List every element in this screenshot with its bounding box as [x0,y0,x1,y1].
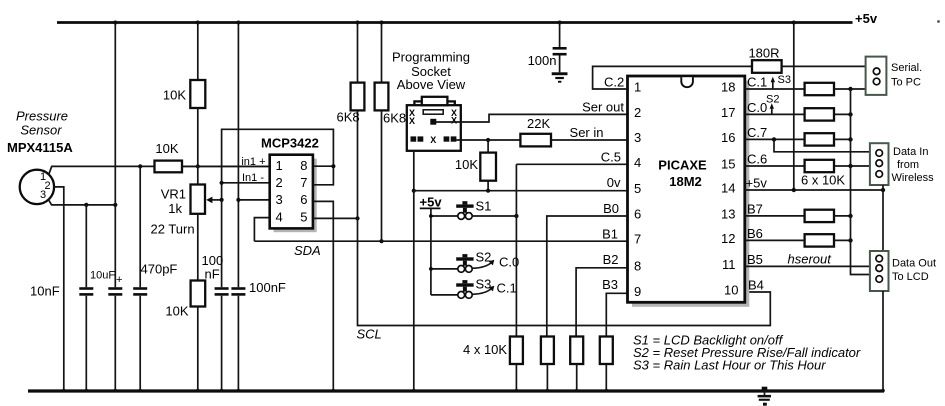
pushbutton S2 [456,254,473,272]
svg-text:7: 7 [300,175,307,190]
svg-text:5: 5 [300,210,307,225]
svg-text:S2: S2 [766,94,779,106]
wire In1- loop over MCP3422 to pins 8/7 [222,129,334,183]
resistor 10K pulldown #4 (B3) [600,337,613,392]
S3 arrow (C.1 row) [771,77,775,89]
wire S1 to C.5 node [472,214,518,218]
svg-text:2: 2 [634,105,641,120]
svg-text:4: 4 [634,155,641,170]
svg-text:Above View: Above View [397,77,466,92]
wire data out bottom to ground rail [882,291,884,391]
svg-text:6K8: 6K8 [383,111,406,126]
ground symbol (100n cap) [552,72,568,82]
svg-text:22 Turn: 22 Turn [151,222,195,237]
wire 22K to PICAXE pin3 [551,139,628,141]
svg-text:3: 3 [634,130,641,145]
svg-text:0v: 0v [607,175,621,190]
C.7 tap wire to Data In top pin [774,139,870,151]
resistor 10K pulldown #3 (B2) [570,337,583,392]
svg-text:18M2: 18M2 [669,174,702,189]
svg-text:17: 17 [721,105,735,120]
capacitor 10nF [79,205,93,391]
svg-text:6 x 10K: 6 x 10K [801,173,845,188]
svg-text:180R: 180R [748,46,779,61]
wire +5v rail to divider 10K [197,23,199,81]
svg-text:Wireless: Wireless [892,172,935,184]
C.1 row wire left [745,88,805,90]
svg-text:6K8: 6K8 [337,110,360,125]
C.0 row wire right to bus [834,112,853,116]
svg-text:10K: 10K [163,88,186,103]
pushbutton S3 [456,280,473,298]
svg-text:+: + [116,274,122,286]
B7 row wire right to bus [834,214,853,218]
C.5 wire (PICAXE pin4 to S1/pulldown) [516,164,627,336]
svg-text:X: X [430,135,436,145]
wire 10K to VR1 [197,108,199,185]
pushbutton S1 [456,201,473,219]
svg-text:10K: 10K [165,304,188,319]
svg-text:PICAXE: PICAXE [658,158,707,173]
serial connector (to PC) [866,57,887,95]
svg-text:C.7: C.7 [747,125,767,140]
wire 10K to MCP3422 in1+ with junctions [138,164,270,168]
pressure sensor MPX4115A [20,170,54,204]
svg-text:Data In: Data In [893,146,928,158]
svg-text:1: 1 [634,80,641,95]
resistor 10K (divider lower, vertical) [191,281,206,307]
svg-text:nF: nF [205,267,220,282]
svg-text:S2: S2 [476,250,492,265]
svg-text:B3: B3 [602,277,618,292]
0v wire (socket ground to PICAXE pin5) [414,189,628,193]
B2 wire (PICAXE pin8 to pulldown) [576,268,627,337]
svg-text:6: 6 [300,192,307,207]
wire SDA loop from MCP pin4 [254,218,269,242]
wire MCP pin8 to pin7 tie [313,164,336,185]
resistor 10K (B6, of 6 x 10K) [805,234,834,246]
svg-text:Ser in: Ser in [570,125,604,140]
capacitor 100n (PICAXE supply bypass) [553,23,567,73]
+5v feed wire (rail to sensor supply node) [114,23,116,288]
C.7 row wire right to bus [834,137,853,141]
resistor 10K (C.6, of 6 x 10K) [805,160,834,172]
svg-text:B5: B5 [747,252,763,267]
svg-text:100nF: 100nF [249,280,286,295]
svg-text:C.0: C.0 [499,255,519,270]
wire VR1 bottom to lower 10K [197,214,199,281]
capacitor 10uF (electrolytic) [108,289,122,392]
C.0 row wire left [745,113,805,115]
SDA wire (MCP pin4 loop to PICAXE B1) [254,240,627,242]
svg-text:470pF: 470pF [141,262,178,277]
bus wire (resistors to serial / data out) [851,89,871,275]
svg-text:C.2: C.2 [604,75,624,90]
capacitor 470pF [133,166,147,391]
IC U1 MCP3422 [270,155,317,233]
wire lower 10K to ground rail [197,307,199,392]
svg-text:Data Out: Data Out [892,258,936,270]
arrow S3 to C.1 net [472,286,494,295]
svg-text:10uF: 10uF [90,270,115,282]
+5v feed wire to MCP3422 pin3 [236,23,240,288]
B3 wire (PICAXE pin9 to pulldown) [606,293,627,336]
svg-text:C.6: C.6 [747,152,767,167]
C.2 loop wire (pin1 to 180R) [593,66,752,89]
wire MCP pin5 to SCL node [313,216,360,220]
label +5v (switch supply) with underline [420,195,443,210]
svg-text:S3: S3 [778,74,791,86]
svg-text:11: 11 [722,257,736,272]
svg-text:B4: B4 [748,278,764,293]
svg-text:C.1: C.1 [497,281,517,296]
wire +5v to MCP pin3 [238,199,269,201]
B0 wire (PICAXE pin6 to SCL/pulldown) [547,216,628,337]
svg-text:SCL: SCL [357,327,382,342]
trimpot VR1 1k 22 Turn [191,185,222,214]
resistor 10K (C.0, of 6 x 10K) [805,108,834,120]
wire MCP pin6 to ground rail [313,201,333,391]
wire In1- (VR1 wiper to pin2) [220,181,270,185]
+5v supply rail [57,21,853,25]
svg-text:4 x 10K: 4 x 10K [463,342,507,357]
C.7 row wire left [745,137,805,141]
resistor 10K pulldown #2 (B0) [541,337,554,392]
svg-text:in1 +: in1 + [241,156,265,168]
resistor 10K (C.1, of 6 x 10K) [805,83,834,95]
svg-text:100n: 100n [528,53,557,68]
resistor 10K (sensor output, horizontal) [155,161,183,173]
wire socket serial-out pin to PICAXE pin2 [436,114,628,122]
data out connector (to LCD) [870,251,889,291]
wire sensor pin2 to ground rail [54,187,64,391]
+5v vertical (rail to pin14 row) [793,23,795,191]
programming socket (above view) [407,97,461,151]
svg-text:+5v: +5v [855,11,878,26]
svg-text:VR1: VR1 [161,187,186,202]
svg-text:X: X [409,116,415,126]
wire sensor pin3 node [48,199,117,207]
svg-text:4: 4 [276,210,283,225]
0v ground rail [28,389,885,393]
svg-text:B0: B0 [603,201,619,216]
svg-text:from: from [897,159,919,171]
svg-text:10: 10 [724,283,738,298]
svg-text:+5v: +5v [420,195,443,210]
svg-text:10K: 10K [155,141,178,156]
wire sensor pin1 to 10K resistor [49,166,155,174]
resistor 6K8 (SCL pull-up) [351,23,365,219]
wire 180R to serial connector [782,65,866,67]
svg-text:3: 3 [40,189,46,201]
svg-text:C.5: C.5 [601,150,621,165]
svg-text:S3 = Rain Last Hour or This Ho: S3 = Rain Last Hour or This Hour [633,358,826,373]
SCL wire from node to PICAXE B4 (pin 10) [358,218,771,325]
wire VR1 wiper to In1- [220,183,224,202]
svg-text:MCP3422: MCP3422 [261,136,319,151]
svg-text:To PC: To PC [891,77,921,89]
wire ser-in: socket to 22K [456,138,520,142]
svg-text:B2: B2 [603,252,619,267]
resistor 180R [752,60,782,73]
svg-text:In1 -: In1 - [242,172,264,184]
svg-text:22K: 22K [527,116,550,131]
svg-text:10K: 10K [455,157,478,172]
svg-text:6: 6 [634,207,641,222]
svg-text:B6: B6 [747,226,763,241]
svg-text:To LCD: To LCD [892,271,929,283]
resistor 10K (C.7, of 6 x 10K) [805,133,834,145]
svg-text:9: 9 [634,284,641,299]
capacitor 100nF (MCP3422 supply) [231,289,245,392]
C.1 row wire right to serial connector [834,87,866,91]
svg-text:2: 2 [276,175,283,190]
resistor 6K8 (SDA pull-up) [375,23,389,244]
svg-text:1: 1 [276,158,283,173]
svg-text:MPX4115A: MPX4115A [7,140,73,155]
resistor 10K (divider upper, vertical) [190,80,205,108]
B5 hserout wire [745,265,870,267]
svg-text:Programming: Programming [392,50,470,65]
svg-text:3: 3 [276,192,283,207]
svg-text:C.0: C.0 [747,100,767,115]
svg-text:X: X [451,115,457,125]
svg-text:5: 5 [634,181,641,196]
svg-text:18: 18 [721,80,735,95]
svg-text:C.1: C.1 [747,75,767,90]
svg-text:12: 12 [721,231,735,246]
stray ink dot (scan artifact) [937,20,940,23]
arrow S2 to C.0 net [472,260,494,269]
svg-text:S1: S1 [476,199,492,214]
ground symbol (main rail) [758,387,771,406]
svg-text:7: 7 [634,232,641,247]
svg-text:10nF: 10nF [30,284,60,299]
svg-text:S3: S3 [476,277,492,292]
data in connector (from wireless) [870,143,889,185]
B6 row wire left [745,239,805,241]
svg-text:8: 8 [300,158,307,173]
svg-text:+5v: +5v [746,176,768,191]
svg-text:15: 15 [721,157,735,172]
switch supply bus [429,208,458,295]
C.6 row wire left [745,165,805,167]
resistor 10K (B7, of 6 x 10K) [805,210,834,222]
resistor 10K pulldown #1 (C.5) [510,337,523,392]
capacitor 100nF (at VR1 wiper) [215,200,229,391]
svg-text:Sensor: Sensor [20,123,62,138]
+5v pin14 wire to Data In connector [745,188,885,192]
C.6 row wire right to Data In [834,164,870,168]
S2 arrow (C.0 row) [770,103,774,113]
svg-text:Pressure: Pressure [16,109,68,124]
IC PICAXE 18M2 [628,76,750,307]
svg-text:B7: B7 [747,202,763,217]
svg-text:16: 16 [721,130,735,145]
wire socket ground to rail [412,151,416,391]
resistor 22K [520,134,551,147]
svg-text:13: 13 [721,206,735,221]
wire data-in bottom pin to +5v node and down to data out [882,185,884,251]
svg-text:Serial.: Serial. [891,62,922,74]
B6 row wire right to bus [834,238,853,242]
svg-text:1k: 1k [168,201,182,216]
svg-text:SDA: SDA [294,243,321,258]
wire in1+ into pin1 [182,165,270,167]
svg-text:8: 8 [634,258,641,273]
svg-text:hserout: hserout [788,252,833,267]
svg-text:Ser out: Ser out [582,100,624,115]
svg-text:14: 14 [721,181,735,196]
resistor 10K (ser-in pulldown) [480,140,496,191]
B7 row wire left [745,215,805,217]
svg-text:B1: B1 [602,227,618,242]
